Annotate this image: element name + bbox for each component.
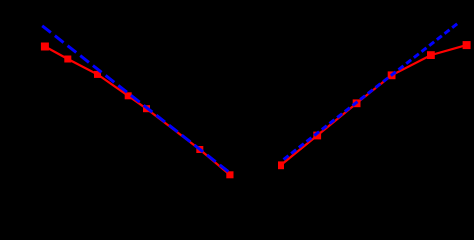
left curve vertex marker pair: [226, 171, 233, 178]
left reference line (blue dashed, slope +1), drawn on top: [42, 26, 228, 172]
left curve marker 6: [196, 146, 203, 153]
left curve marker 4: [125, 92, 132, 99]
right curve marker 4: [388, 71, 396, 79]
left error curve (red solid): [45, 46, 230, 174]
right curve marker 3: [353, 99, 361, 107]
right curve start marker pair: [278, 161, 284, 169]
left curve marker 5: [143, 105, 150, 112]
right reference line (blue dashed, slope -1), drawn on top: [284, 24, 458, 160]
left curve marker 1: [41, 43, 49, 51]
left curve marker 3: [94, 71, 101, 78]
right curve marker 2: [313, 132, 321, 140]
right error curve (red solid): [281, 45, 467, 165]
right curve marker 6: [463, 41, 471, 49]
left curve marker 2: [64, 56, 71, 63]
right curve marker 5: [427, 51, 435, 59]
